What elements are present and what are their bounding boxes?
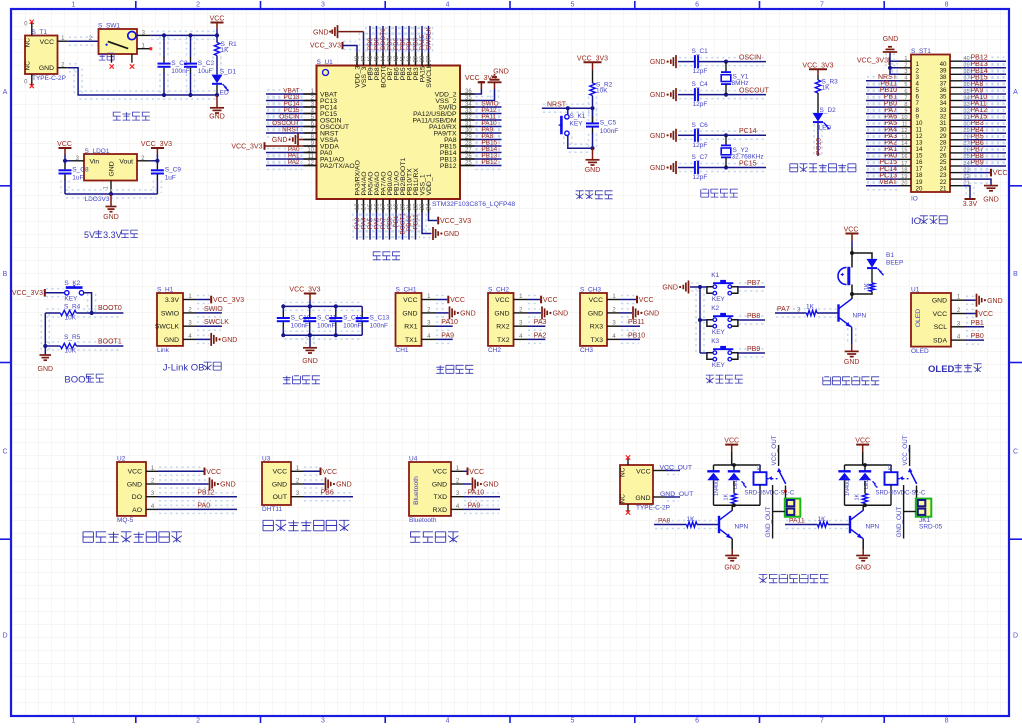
wire bbox=[700, 319, 707, 321]
svg-text:PA10: PA10 bbox=[441, 319, 458, 326]
svg-text:PC13: PC13 bbox=[816, 138, 823, 155]
wire bbox=[77, 308, 122, 310]
power VCC_3V3 bbox=[465, 75, 496, 89]
pin stubs U4 bbox=[451, 471, 463, 509]
svg-text:GND: GND bbox=[983, 197, 999, 204]
capacitor S_C4 12pF bbox=[694, 88, 699, 101]
power VCC bbox=[448, 296, 465, 304]
svg-text:16: 16 bbox=[375, 203, 381, 210]
svg-text:GND: GND bbox=[336, 482, 352, 489]
svg-text:LDO3V3: LDO3V3 bbox=[85, 196, 110, 203]
svg-text:1K: 1K bbox=[724, 493, 730, 500]
diode LED of B1 bbox=[867, 259, 884, 276]
ground bbox=[650, 55, 676, 68]
svg-text:U4: U4 bbox=[409, 456, 418, 463]
svg-text:OSCIN: OSCIN bbox=[739, 54, 761, 61]
svg-text:PA2: PA2 bbox=[534, 332, 547, 339]
wire bbox=[864, 504, 866, 506]
button K2 KEY bbox=[707, 313, 738, 328]
svg-text:GND: GND bbox=[272, 481, 287, 488]
wire bbox=[963, 141, 1005, 143]
junction bbox=[308, 304, 312, 308]
svg-text:VCC_3V3: VCC_3V3 bbox=[465, 75, 496, 82]
resistor S_R1 1K bbox=[214, 43, 219, 56]
svg-text:VCC: VCC bbox=[495, 297, 509, 304]
svg-text:VCC: VCC bbox=[469, 469, 484, 476]
ground bbox=[592, 148, 594, 160]
svg-text:GND: GND bbox=[650, 92, 666, 99]
ground bbox=[433, 227, 459, 240]
wire bbox=[46, 288, 64, 290]
svg-text:GND: GND bbox=[844, 359, 860, 366]
svg-text:NRST: NRST bbox=[282, 127, 299, 134]
capacitor S_C11 100nF bbox=[303, 306, 316, 335]
svg-text:S_CH2: S_CH2 bbox=[488, 287, 509, 294]
svg-text:SWCLK: SWCLK bbox=[155, 324, 180, 331]
pin numbers 1-4 bbox=[456, 466, 460, 510]
resistor bbox=[869, 283, 874, 292]
svg-text:PA9: PA9 bbox=[468, 502, 481, 509]
capacitor S_C5 100nF bbox=[586, 108, 599, 148]
svg-text:CH1: CH1 bbox=[396, 347, 409, 354]
ground bbox=[731, 549, 733, 556]
section title 电源电路 bbox=[113, 112, 150, 120]
junction bbox=[888, 66, 892, 70]
svg-text:1: 1 bbox=[71, 718, 75, 724]
svg-text:100nF: 100nF bbox=[291, 322, 309, 329]
wire bbox=[852, 291, 872, 294]
svg-text:RXD: RXD bbox=[433, 507, 447, 514]
junction bbox=[334, 333, 338, 337]
resistor 1K (vertical) bbox=[864, 481, 866, 494]
svg-text:GND: GND bbox=[209, 114, 225, 121]
wire bbox=[156, 155, 158, 161]
ground bbox=[851, 344, 853, 351]
svg-text:PB12: PB12 bbox=[440, 163, 457, 170]
wire bbox=[700, 286, 707, 288]
wire bbox=[667, 466, 679, 468]
pin LDO1.2 Vout bbox=[137, 160, 150, 162]
svg-text:32: 32 bbox=[465, 115, 472, 121]
svg-text:VCC: VCC bbox=[210, 15, 225, 22]
wire bbox=[621, 308, 631, 310]
wire bbox=[372, 27, 374, 52]
section title 按键电路 bbox=[706, 375, 743, 383]
svg-text:SDA: SDA bbox=[933, 338, 947, 345]
svg-text:43: 43 bbox=[388, 55, 394, 62]
svg-text:8MHz: 8MHz bbox=[732, 80, 749, 87]
svg-text:S_LDO1: S_LDO1 bbox=[85, 148, 110, 155]
junction bbox=[590, 106, 594, 110]
svg-text:VCC: VCC bbox=[206, 469, 221, 476]
section title 串口电路 bbox=[436, 365, 473, 373]
wire bbox=[197, 308, 221, 310]
pin T1.1 VCC bbox=[58, 40, 68, 42]
svg-text:S_CH1: S_CH1 bbox=[396, 287, 417, 294]
pin names U1 right side bbox=[413, 91, 457, 169]
power VCC bbox=[991, 169, 1008, 177]
wire bbox=[963, 109, 1005, 111]
wire bbox=[429, 213, 438, 221]
svg-text:DO: DO bbox=[132, 494, 142, 501]
junction bbox=[162, 93, 166, 97]
diode D2 LED bbox=[813, 113, 830, 129]
svg-text:OSCOUT: OSCOUT bbox=[739, 87, 770, 94]
ground bbox=[855, 556, 871, 572]
pin stubs ST1 left bbox=[899, 61, 911, 186]
wire bbox=[378, 214, 380, 239]
svg-text:IO: IO bbox=[911, 216, 921, 227]
svg-text:U1: U1 bbox=[911, 287, 920, 294]
svg-text:VCC: VCC bbox=[993, 170, 1008, 177]
svg-text:VCC: VCC bbox=[636, 468, 650, 475]
svg-text:PA2/TX/AO: PA2/TX/AO bbox=[320, 163, 355, 170]
svg-text:12pF: 12pF bbox=[693, 142, 708, 149]
module S_CH2 body bbox=[488, 293, 514, 346]
pin LDO1.3 Vin bbox=[71, 160, 84, 162]
svg-text:GND: GND bbox=[220, 482, 236, 489]
svg-text:S_K2: S_K2 bbox=[64, 280, 80, 287]
wire bbox=[963, 56, 1005, 58]
svg-text:TX2: TX2 bbox=[497, 337, 510, 344]
svg-text:B: B bbox=[3, 271, 8, 278]
relay coil K1 bbox=[754, 465, 767, 505]
wire bbox=[963, 89, 1005, 91]
svg-text:31: 31 bbox=[465, 121, 472, 127]
svg-text:GND: GND bbox=[109, 161, 116, 176]
junction bbox=[308, 333, 312, 337]
svg-text:RX3: RX3 bbox=[590, 324, 603, 331]
connector T1 TYPE-C-2P bbox=[25, 36, 58, 75]
svg-text:VCC_3V3: VCC_3V3 bbox=[12, 290, 43, 297]
label 开关 bbox=[99, 53, 114, 60]
wire vertical bus bbox=[695, 288, 697, 352]
svg-text:NRST: NRST bbox=[547, 101, 567, 108]
junction bbox=[162, 33, 166, 37]
power VCC bbox=[724, 437, 739, 452]
module U4 body bbox=[409, 462, 451, 516]
svg-text:GND: GND bbox=[644, 311, 660, 318]
button K1 KEY bbox=[707, 280, 738, 295]
wire bbox=[867, 82, 898, 84]
power VCC_3V3 bbox=[12, 289, 45, 297]
svg-text:S_C4: S_C4 bbox=[692, 81, 709, 88]
svg-text:GND_OUT: GND_OUT bbox=[765, 507, 772, 538]
svg-text:SWCLK: SWCLK bbox=[426, 63, 433, 88]
connector JK screw terminal bbox=[916, 499, 932, 517]
wire bbox=[621, 295, 635, 297]
wire bbox=[464, 504, 499, 506]
svg-text:1K: 1K bbox=[818, 516, 827, 523]
pin numbers 1-4 bbox=[519, 294, 523, 340]
wire bbox=[352, 214, 354, 239]
junction bbox=[863, 463, 867, 467]
wire bbox=[267, 115, 303, 117]
svg-text:PB9: PB9 bbox=[971, 160, 984, 167]
wire bbox=[963, 102, 1005, 104]
wire bbox=[867, 168, 898, 170]
svg-text:KEY: KEY bbox=[570, 120, 584, 127]
svg-text:GND: GND bbox=[432, 481, 447, 488]
power 3.3V bbox=[963, 199, 978, 208]
svg-text:VCC_3V3: VCC_3V3 bbox=[310, 42, 341, 49]
wire bbox=[110, 193, 112, 195]
resistor R4 10K bbox=[45, 309, 60, 317]
svg-text:K3: K3 bbox=[711, 338, 719, 345]
capacitor S_C13 100nF bbox=[356, 306, 369, 335]
svg-text:100nF: 100nF bbox=[343, 322, 361, 329]
svg-text:PA8: PA8 bbox=[658, 518, 671, 525]
power VCC bbox=[844, 226, 859, 241]
junction bbox=[698, 285, 702, 289]
svg-text:S_K1: S_K1 bbox=[570, 113, 586, 120]
wire bbox=[436, 321, 452, 323]
junction bbox=[724, 93, 728, 97]
svg-text:27: 27 bbox=[465, 147, 472, 153]
pin LDO1.1 GND bbox=[110, 181, 112, 193]
svg-text:SRD-05VDC-SL-C: SRD-05VDC-SL-C bbox=[745, 490, 795, 496]
svg-text:7: 7 bbox=[904, 95, 907, 101]
ground bbox=[724, 556, 740, 572]
pin T2 bottom no-connect bbox=[626, 504, 630, 515]
wire bbox=[847, 328, 849, 343]
junction bbox=[732, 503, 736, 507]
wire bbox=[304, 466, 319, 468]
svg-text:4: 4 bbox=[904, 76, 907, 82]
svg-text:VDD_1: VDD_1 bbox=[426, 173, 433, 195]
wire bbox=[700, 130, 765, 132]
svg-text:41: 41 bbox=[401, 55, 407, 62]
svg-text:13: 13 bbox=[355, 203, 361, 210]
wire bbox=[700, 57, 765, 59]
svg-text:3: 3 bbox=[904, 69, 907, 75]
wire bbox=[818, 308, 837, 310]
section title J-Link OB接口 bbox=[163, 362, 221, 373]
svg-text:VCC: VCC bbox=[933, 311, 947, 318]
svg-text:46: 46 bbox=[368, 55, 374, 62]
svg-text:17: 17 bbox=[901, 161, 907, 167]
wire bbox=[69, 36, 98, 38]
svg-text:C: C bbox=[1013, 448, 1018, 455]
svg-text:VCC: VCC bbox=[978, 311, 993, 318]
svg-text:NC: NC bbox=[25, 61, 32, 71]
capacitor S_C6 12pF bbox=[694, 129, 699, 142]
resistor 1K bbox=[818, 522, 829, 527]
wire bbox=[267, 122, 303, 124]
wire bbox=[267, 96, 303, 98]
wire bbox=[817, 75, 819, 80]
svg-text:34: 34 bbox=[465, 102, 472, 108]
svg-text:1: 1 bbox=[71, 2, 75, 9]
pin stubs U1 left (pins 1-12) bbox=[304, 94, 317, 166]
svg-text:A: A bbox=[3, 89, 8, 96]
svg-text:PB10: PB10 bbox=[628, 332, 645, 339]
wire bbox=[436, 295, 446, 297]
svg-text:GND_OUT: GND_OUT bbox=[660, 491, 693, 498]
svg-text:BOOT1: BOOT1 bbox=[98, 338, 122, 345]
section title OLED显示屏 bbox=[928, 364, 982, 375]
transistor NPN bbox=[850, 510, 863, 538]
wire bbox=[563, 137, 565, 148]
svg-text:OLED: OLED bbox=[928, 364, 955, 375]
svg-text:D: D bbox=[1013, 632, 1018, 639]
wire bbox=[267, 89, 303, 91]
wire bbox=[476, 115, 501, 117]
svg-text:3.3V: 3.3V bbox=[103, 230, 122, 240]
wire bbox=[963, 122, 1005, 124]
power VCC_3V3 bbox=[211, 296, 244, 304]
wire relay top rail bbox=[714, 464, 761, 466]
wire bbox=[528, 334, 544, 336]
wire bbox=[867, 141, 898, 143]
power VCC_3V3 bbox=[438, 217, 471, 225]
svg-text:SWIO: SWIO bbox=[204, 306, 223, 313]
wire bbox=[417, 27, 419, 52]
wire bbox=[885, 53, 887, 67]
svg-text:TXD: TXD bbox=[433, 494, 447, 501]
svg-text:U3: U3 bbox=[262, 456, 271, 463]
pin numbers 13-24 (vertical) bbox=[355, 203, 433, 210]
wire bbox=[476, 148, 501, 150]
svg-text:GND: GND bbox=[444, 231, 460, 238]
svg-text:CH2: CH2 bbox=[488, 347, 501, 354]
power VCC bbox=[321, 468, 338, 476]
wire bbox=[679, 163, 693, 165]
svg-text:GND: GND bbox=[402, 310, 417, 317]
svg-text:VCC: VCC bbox=[844, 226, 859, 233]
pin names S_CH2 bbox=[494, 297, 509, 344]
pin stubs U1 right (pins 36-25) bbox=[460, 94, 475, 166]
wire PA7 bbox=[776, 308, 806, 310]
svg-text:K2: K2 bbox=[711, 305, 719, 312]
svg-text:VCC_OUT: VCC_OUT bbox=[771, 435, 778, 465]
svg-text:10K: 10K bbox=[65, 315, 77, 322]
svg-text:42: 42 bbox=[394, 55, 400, 62]
svg-text:GND: GND bbox=[164, 337, 179, 344]
svg-text:VCC: VCC bbox=[450, 297, 465, 304]
junction bbox=[215, 33, 219, 37]
svg-text:S_C7: S_C7 bbox=[692, 154, 709, 161]
wire bbox=[159, 492, 236, 494]
pin names U1 bbox=[932, 298, 948, 345]
svg-text:2: 2 bbox=[196, 718, 200, 724]
ground bbox=[103, 207, 119, 222]
svg-text:PC15: PC15 bbox=[739, 160, 757, 167]
wire bbox=[391, 214, 393, 239]
wire bbox=[786, 520, 817, 522]
svg-text:D: D bbox=[2, 632, 7, 639]
svg-text:U2: U2 bbox=[117, 456, 126, 463]
wire bbox=[679, 90, 693, 92]
ground bbox=[209, 108, 225, 121]
pin numbers 1-4 bbox=[151, 466, 155, 510]
ground bbox=[302, 348, 318, 365]
wire NRST bbox=[543, 103, 592, 105]
power VCC_3V3 bbox=[231, 142, 264, 150]
wire bbox=[772, 485, 774, 539]
svg-text:10: 10 bbox=[901, 115, 907, 121]
svg-text:OLED: OLED bbox=[915, 309, 922, 328]
wire bbox=[404, 214, 406, 239]
wire bbox=[733, 504, 735, 506]
wire bbox=[398, 214, 400, 239]
svg-text:B1: B1 bbox=[886, 252, 894, 259]
wire bbox=[963, 115, 1005, 117]
svg-text:1K: 1K bbox=[687, 516, 696, 523]
pin SW1 bottom-left no-connect bbox=[110, 54, 114, 69]
wire bbox=[267, 109, 303, 111]
section title 蓝牙模块 bbox=[410, 532, 458, 543]
wire bbox=[773, 511, 785, 513]
svg-text:GND_OUT: GND_OUT bbox=[896, 507, 903, 538]
wire bbox=[963, 174, 990, 176]
svg-text:33: 33 bbox=[465, 108, 472, 114]
wire bbox=[159, 479, 208, 481]
capacitor S_C3 10uF bbox=[184, 35, 197, 95]
wire bbox=[862, 539, 864, 549]
pin stubs U2 bbox=[146, 471, 158, 509]
wire bbox=[731, 539, 733, 549]
power VCC_3V3 bbox=[141, 141, 172, 154]
svg-text:Link: Link bbox=[157, 347, 170, 354]
svg-text:CH3: CH3 bbox=[580, 347, 593, 354]
svg-text:GND: GND bbox=[932, 298, 947, 305]
svg-text:GND: GND bbox=[650, 59, 666, 66]
svg-text:GND: GND bbox=[302, 358, 318, 365]
wire bbox=[966, 335, 983, 337]
wire bbox=[528, 308, 540, 310]
svg-text:VCC: VCC bbox=[128, 469, 142, 476]
pin numbers 1-3 bbox=[296, 466, 300, 497]
module S_CH3 body bbox=[580, 293, 607, 346]
resistor 1K bbox=[687, 522, 698, 527]
ground bbox=[38, 355, 54, 373]
svg-text:NC: NC bbox=[620, 467, 627, 477]
resistor bbox=[731, 494, 736, 504]
svg-text:26: 26 bbox=[465, 154, 472, 160]
relay coil K2 bbox=[885, 465, 898, 505]
wire bbox=[700, 163, 765, 165]
pin SW1.3 bbox=[137, 34, 150, 36]
wire bbox=[867, 181, 898, 183]
pin numbers 1-20 inside bbox=[916, 61, 923, 192]
wire bbox=[965, 187, 967, 198]
pin names S_H1 bbox=[155, 297, 180, 344]
ground bbox=[211, 333, 237, 346]
svg-text:VCC: VCC bbox=[40, 39, 54, 46]
wire bbox=[64, 155, 66, 161]
wire bbox=[966, 322, 983, 324]
svg-text:2: 2 bbox=[904, 63, 907, 69]
wire bbox=[963, 63, 1005, 65]
switch SW1 body bbox=[99, 29, 138, 54]
ground bbox=[488, 68, 509, 89]
ground bbox=[983, 186, 999, 204]
svg-text:GND: GND bbox=[855, 565, 871, 572]
svg-text:PA7: PA7 bbox=[777, 306, 790, 313]
wire bbox=[475, 89, 482, 94]
svg-text:1uF: 1uF bbox=[165, 175, 176, 182]
svg-text:SWIO: SWIO bbox=[161, 310, 179, 317]
svg-text:NC: NC bbox=[620, 494, 627, 504]
wire bbox=[267, 161, 303, 163]
svg-text:11: 11 bbox=[902, 122, 908, 128]
svg-text:GND: GND bbox=[103, 214, 119, 221]
svg-text:GND: GND bbox=[39, 65, 54, 72]
section title 可燃气体检测模块 bbox=[83, 532, 182, 543]
svg-text:VCC_3V3: VCC_3V3 bbox=[440, 218, 471, 225]
wire bbox=[867, 128, 898, 130]
